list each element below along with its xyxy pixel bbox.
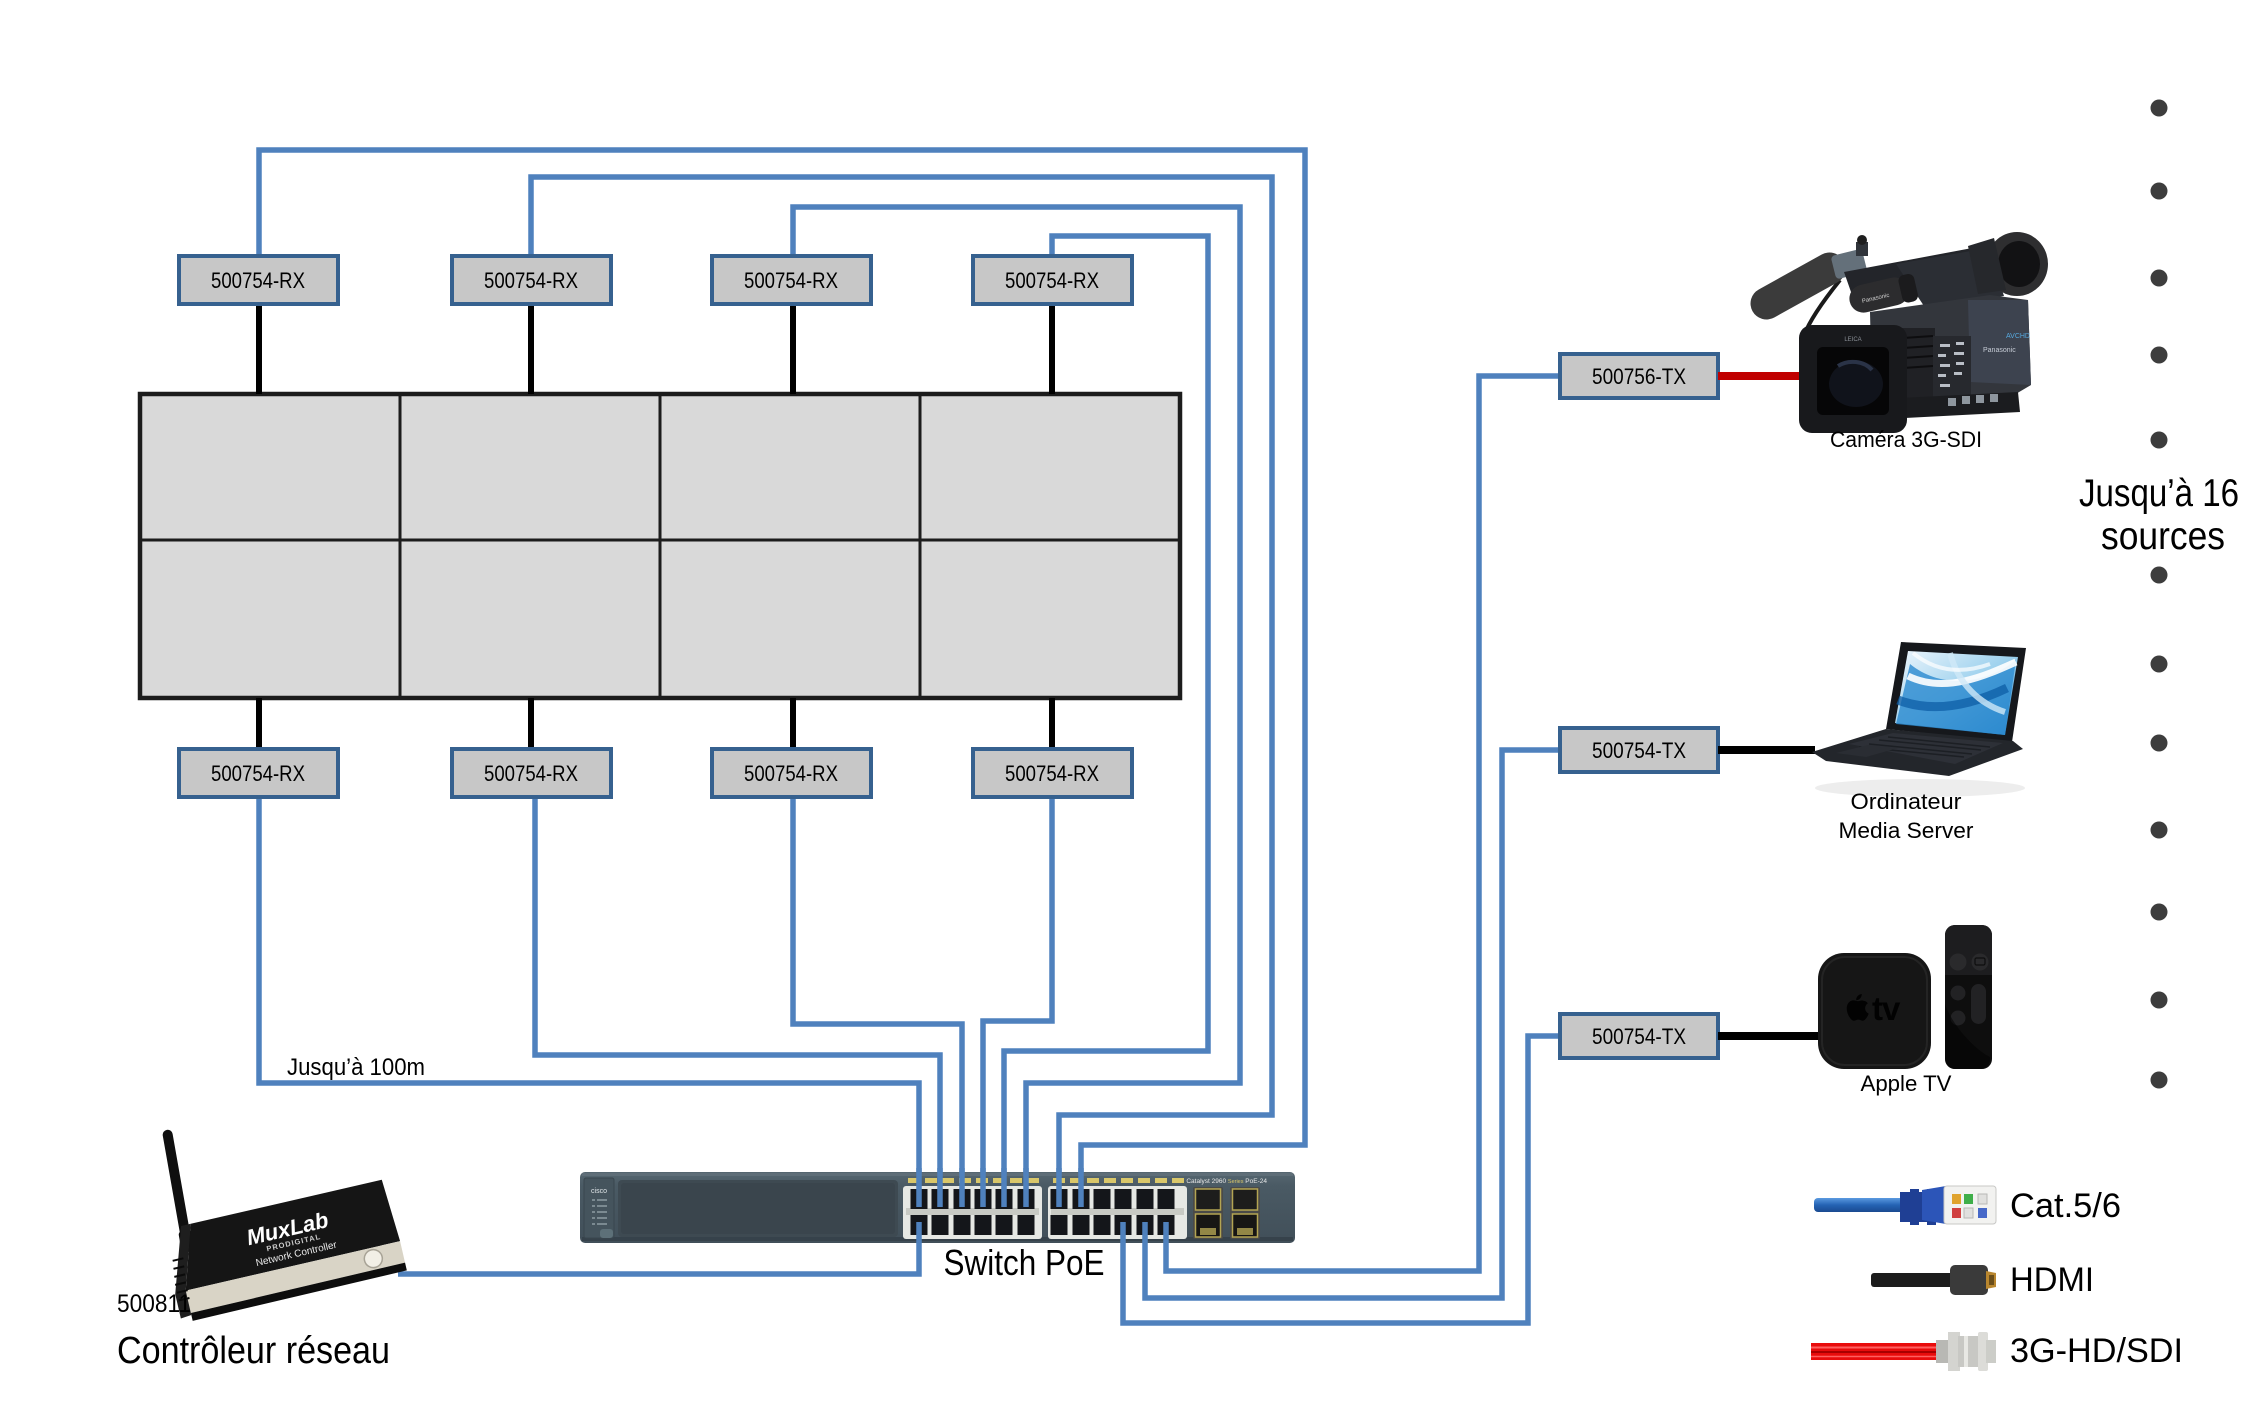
apple tv remote	[1945, 925, 1992, 1069]
svg-text:Media Server: Media Server	[1839, 818, 1974, 843]
microphone sponge	[1745, 247, 1851, 325]
wire hdmi stub display8 bottom	[1049, 698, 1055, 749]
rx box 500754-RX 3	[712, 256, 871, 304]
label hdmi	[2010, 1261, 2094, 1299]
svg-text:Catalyst 2960 Series PoE-24: Catalyst 2960 Series PoE-24	[1186, 1178, 1267, 1185]
rx box 500754-RX 6	[452, 749, 611, 797]
wire cat5 RX3 top to switch	[793, 207, 1240, 1205]
svg-text:500756-TX: 500756-TX	[1592, 364, 1686, 389]
svg-text:Ordinateur: Ordinateur	[1851, 789, 1962, 814]
svg-text:500811: 500811	[117, 1290, 191, 1318]
label apple tv	[1861, 1071, 1952, 1096]
lens barrel rings	[1901, 328, 1935, 406]
body right panel	[1968, 300, 2031, 385]
legend cat5/6 cable icon	[1814, 1186, 1996, 1225]
legend 3g-hd/sdi cable icon	[1811, 1332, 1996, 1371]
svg-text:500754-RX: 500754-RX	[744, 761, 838, 786]
svg-text:500754-TX: 500754-TX	[1592, 1024, 1686, 1049]
wire cat5 RX2 top to switch	[531, 177, 1272, 1205]
switch PoE cisco catalyst 2960	[580, 1172, 1295, 1243]
switch uplink module 2	[1230, 1187, 1260, 1239]
laptop ordinateur media server	[1812, 642, 2026, 797]
svg-text:Cat.5/6: Cat.5/6	[2010, 1187, 2121, 1225]
switch model label	[1186, 1178, 1267, 1185]
wire hdmi tx to laptop	[1718, 746, 1815, 754]
svg-text:500754-RX: 500754-RX	[484, 268, 578, 293]
wire cat5 RX8 bottom to switch	[983, 797, 1052, 1205]
rx box 500754-RX 4	[973, 256, 1132, 304]
wire hdmi stub display2 top	[528, 306, 534, 394]
svg-text:sources: sources	[2101, 515, 2225, 558]
bottom rail	[1900, 392, 2020, 418]
switch port block 2	[1048, 1186, 1187, 1239]
antenna	[160, 1129, 194, 1253]
wire cat5 switch to controller	[398, 1222, 919, 1274]
tx box 500754-TX laptop	[1560, 728, 1718, 772]
tx box 500754-TX appletv	[1560, 1014, 1718, 1058]
wire cat5 switch to 500756-TX camera	[1166, 376, 1560, 1271]
label jusqu'a 16 sources	[2079, 472, 2239, 558]
wire hdmi stub display7 bottom	[790, 698, 796, 749]
switch port block 1	[903, 1186, 1042, 1239]
svg-text:HDMI: HDMI	[2010, 1261, 2094, 1299]
wire cat5 switch to 500754-TX laptop	[1145, 750, 1560, 1298]
svg-text:Switch PoE: Switch PoE	[944, 1242, 1105, 1283]
label camera 3G-SDI	[1830, 427, 1982, 452]
wire cat5 RX7 bottom to switch	[793, 797, 962, 1205]
svg-text:tv: tv	[1872, 990, 1901, 1027]
wire hdmi stub display4 top	[1049, 306, 1055, 394]
wire cat5 RX5 bottom to switch	[259, 797, 919, 1205]
wire sdi tx to camera	[1718, 372, 1802, 380]
label 3g-hd/sdi	[2010, 1332, 2183, 1370]
sources dot column	[2151, 100, 2168, 1089]
wire cat5 RX4 top to switch	[1004, 236, 1208, 1205]
controller body	[161, 1179, 407, 1324]
svg-text:Caméra 3G-SDI: Caméra 3G-SDI	[1830, 427, 1982, 452]
svg-text:LEICA: LEICA	[1844, 337, 1861, 343]
switch uplink module 1	[1193, 1187, 1223, 1239]
wire cat5 switch to 500754-TX appletv	[1123, 1036, 1560, 1323]
wire cat5 RX6 bottom to switch	[535, 797, 940, 1205]
svg-text:500754-RX: 500754-RX	[211, 761, 305, 786]
mic mount bracket	[1831, 248, 1868, 279]
svg-text:500754-RX: 500754-RX	[1005, 761, 1099, 786]
lens hood	[1799, 325, 1907, 433]
viewfinder eyecup	[1986, 232, 2048, 296]
wire hdmi tx to appletv	[1718, 1032, 1822, 1040]
apple tv box	[1818, 953, 1931, 1069]
svg-text:AVCHD: AVCHD	[2006, 333, 2030, 340]
wire hdmi stub display3 top	[790, 306, 796, 394]
camera 3G-SDI panasonic camcorder	[1745, 232, 2048, 433]
label controleur reseau	[117, 1330, 390, 1372]
svg-text:500754-RX: 500754-RX	[744, 268, 838, 293]
svg-text:500754-RX: 500754-RX	[1005, 268, 1099, 293]
label 500811	[117, 1290, 191, 1318]
rx box 500754-RX 5	[179, 749, 338, 797]
svg-text:3G-HD/SDI: 3G-HD/SDI	[2010, 1332, 2183, 1370]
label ordinateur media server	[1839, 789, 1974, 843]
label switch poe	[944, 1242, 1105, 1283]
control panel buttons	[1933, 336, 1971, 400]
svg-text:500754-RX: 500754-RX	[211, 268, 305, 293]
switch port labels yellow strip	[908, 1178, 1184, 1183]
svg-text:Contrôleur réseau: Contrôleur réseau	[117, 1330, 390, 1372]
rx box 500754-RX 7	[712, 749, 871, 797]
wire entries into switch top ports	[919, 1168, 1081, 1207]
label cat.5/6	[2010, 1187, 2121, 1225]
legend hdmi cable icon	[1871, 1265, 1996, 1295]
svg-text:500754-TX: 500754-TX	[1592, 738, 1686, 763]
svg-text:cisco: cisco	[591, 1188, 607, 1195]
wire cat5 RX1 top to switch	[259, 150, 1305, 1205]
svg-text:Panasonic: Panasonic	[1983, 347, 2016, 354]
svg-text:Jusqu’à 16: Jusqu’à 16	[2079, 472, 2239, 515]
panasonic mic capsule	[1847, 273, 1920, 316]
camera main body	[1870, 295, 2031, 413]
svg-text:500754-RX: 500754-RX	[484, 761, 578, 786]
rx box 500754-RX 2	[452, 256, 611, 304]
rx box 500754-RX 1	[179, 256, 338, 304]
svg-text:Apple TV: Apple TV	[1861, 1071, 1952, 1096]
svg-text:Jusqu’à 100m: Jusqu’à 100m	[287, 1054, 425, 1081]
handle bar	[1844, 246, 1991, 292]
tx box 500756-TX	[1560, 354, 1718, 398]
video wall grid (4x2 displays)	[140, 394, 1180, 698]
rx box 500754-RX 8	[973, 749, 1132, 797]
network controller muxlab 500811	[160, 1129, 407, 1324]
shoulder strap wire	[1802, 280, 1840, 360]
wire hdmi stub display5 bottom	[256, 698, 262, 749]
wire hdmi stub display1 top	[256, 306, 262, 394]
wire hdmi stub display6 bottom	[528, 698, 534, 749]
label jusqu'a 100m	[287, 1054, 425, 1081]
